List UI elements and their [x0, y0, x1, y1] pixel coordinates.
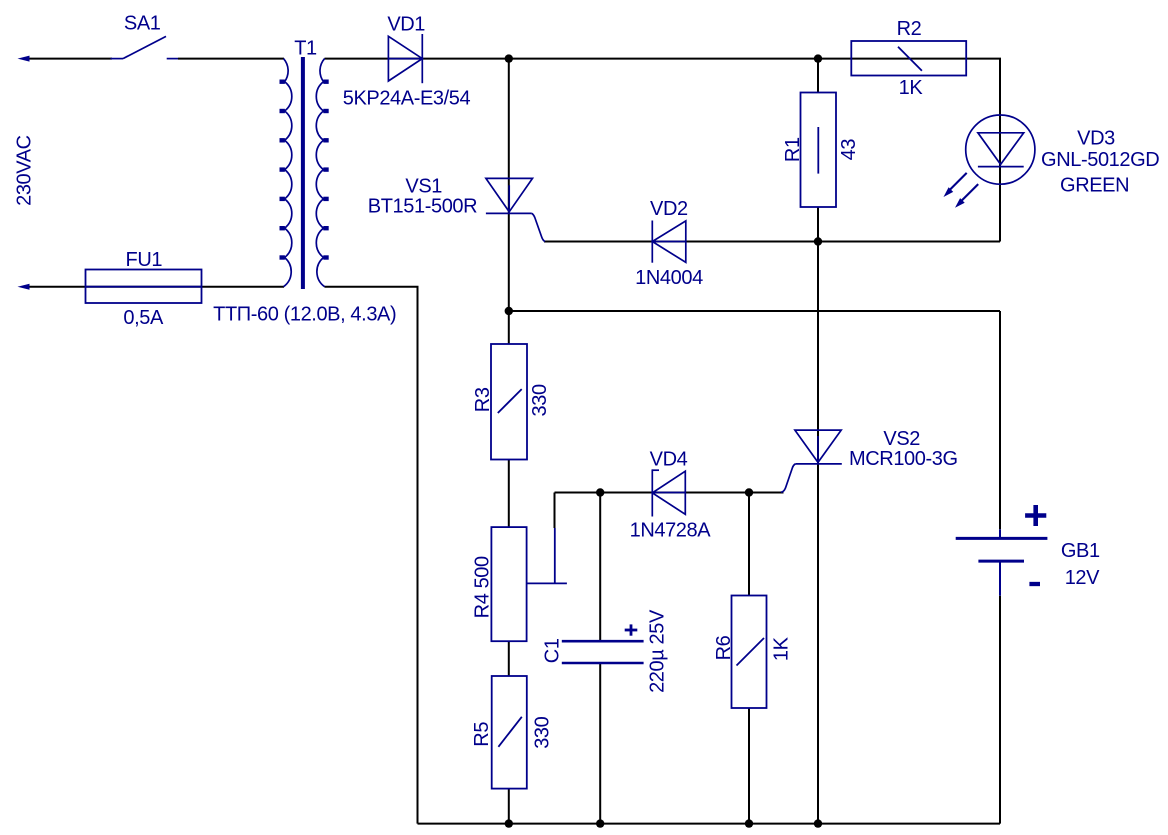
svg-text:1K: 1K — [771, 636, 793, 661]
svg-text:0,5А: 0,5А — [123, 307, 164, 329]
svg-text:1N4004: 1N4004 — [635, 267, 703, 289]
svg-text:VS2: VS2 — [883, 428, 920, 450]
svg-text:MCR100-3G: MCR100-3G — [849, 448, 958, 470]
svg-text:VD2: VD2 — [650, 198, 688, 220]
svg-text:SA1: SA1 — [124, 13, 161, 35]
svg-text:R4 500: R4 500 — [472, 556, 494, 618]
svg-text:ТТП-60 (12.0В, 4.3А): ТТП-60 (12.0В, 4.3А) — [213, 303, 396, 325]
svg-text:R3: R3 — [472, 387, 494, 412]
svg-text:GREEN: GREEN — [1060, 174, 1129, 196]
svg-text:BT151-500R: BT151-500R — [368, 196, 477, 218]
svg-text:GNL-5012GD: GNL-5012GD — [1041, 149, 1159, 171]
svg-text:VD4: VD4 — [650, 448, 688, 470]
svg-text:R1: R1 — [782, 137, 804, 162]
svg-text:5KP24A-E3/54: 5KP24A-E3/54 — [343, 88, 471, 110]
svg-text:R2: R2 — [897, 18, 922, 40]
svg-text:GB1: GB1 — [1061, 540, 1100, 562]
svg-text:R5: R5 — [471, 722, 493, 747]
svg-text:VD3: VD3 — [1077, 127, 1115, 149]
svg-text:43: 43 — [838, 139, 860, 161]
svg-text:220µ 25V: 220µ 25V — [646, 609, 668, 693]
svg-text:330: 330 — [529, 384, 551, 416]
svg-text:330: 330 — [531, 716, 553, 748]
svg-text:VD1: VD1 — [387, 13, 425, 35]
svg-text:T1: T1 — [294, 38, 317, 60]
svg-text:1K: 1K — [899, 77, 924, 99]
svg-text:VS1: VS1 — [405, 176, 442, 198]
svg-text:FU1: FU1 — [126, 249, 163, 271]
svg-text:C1: C1 — [542, 638, 564, 663]
svg-text:R6: R6 — [713, 635, 735, 660]
svg-text:230VAC: 230VAC — [14, 135, 36, 206]
svg-text:12V: 12V — [1065, 567, 1100, 589]
svg-text:1N4728A: 1N4728A — [630, 519, 712, 541]
